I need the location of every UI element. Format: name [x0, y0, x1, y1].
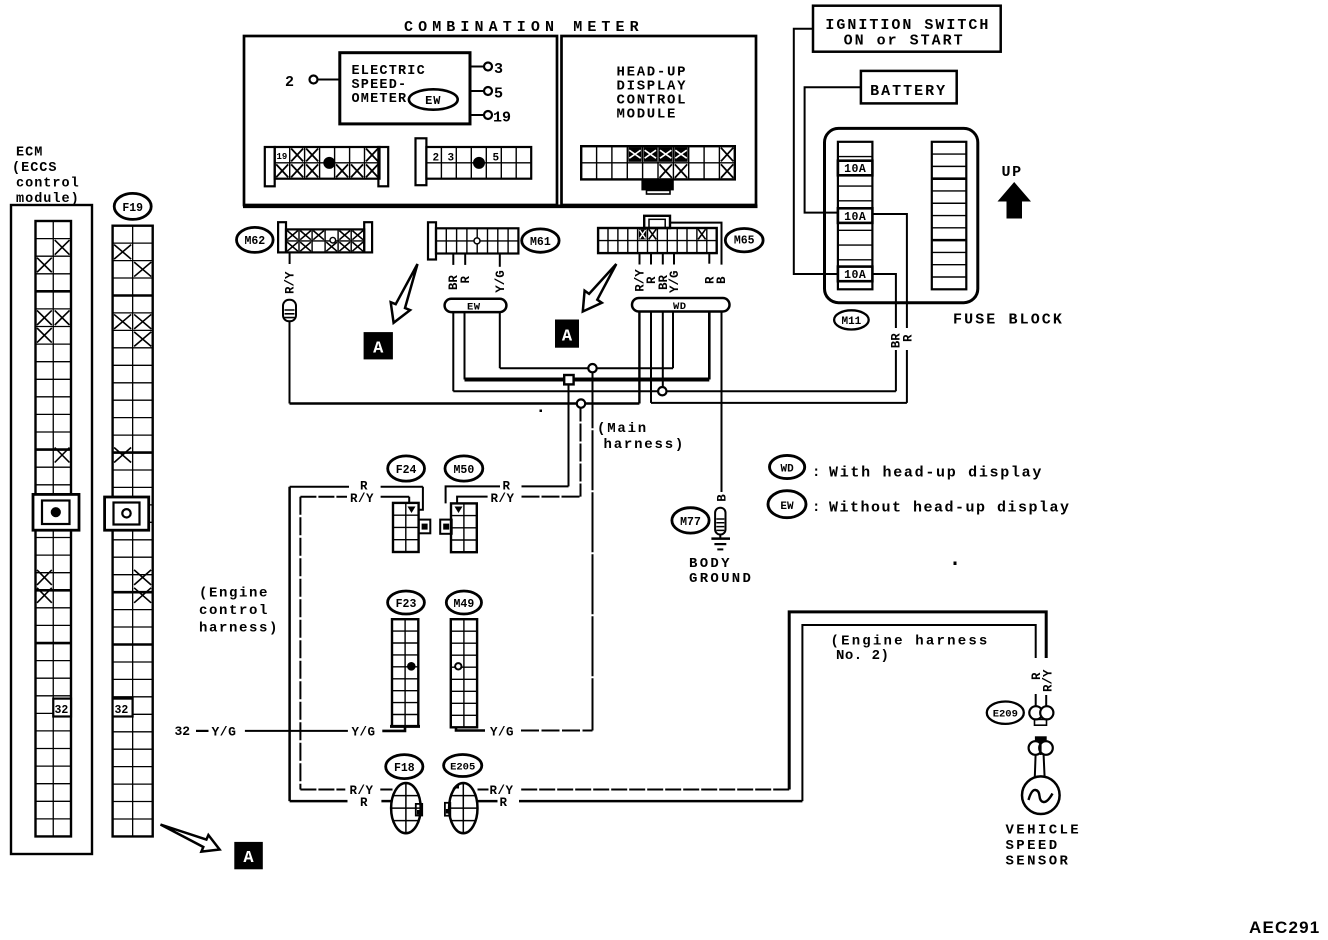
svg-text:F24: F24 [396, 464, 417, 477]
combination meter box left [244, 36, 557, 205]
connector F24 grid [393, 503, 419, 552]
svg-text::: : [812, 500, 820, 516]
junction dot Y/G [588, 364, 596, 372]
ECM pin 32 Y/G label [175, 724, 237, 739]
connector M65 oval [725, 229, 763, 252]
connector M50 oval [445, 456, 483, 481]
connector M65 strip [598, 228, 717, 253]
sensor bullet pair [1029, 736, 1053, 755]
wire M65.BR down [662, 312, 664, 392]
wire net R/Y horizontal left [290, 402, 640, 405]
head-up display control module text [617, 65, 688, 123]
svg-text:MODULE: MODULE [617, 107, 678, 123]
connector F23 oval [388, 591, 425, 614]
svg-text:COMBINATION METER: COMBINATION METER [404, 19, 644, 36]
svg-text:R/Y: R/Y [491, 492, 515, 506]
electric speedometer U1 box [340, 53, 470, 124]
wire F18 R [290, 796, 393, 810]
connector E205 egg [445, 783, 478, 833]
svg-text:EW: EW [467, 301, 481, 313]
svg-text:B: B [715, 276, 729, 284]
svg-text:control: control [16, 177, 80, 192]
svg-text:19: 19 [493, 110, 511, 127]
stray speck [540, 410, 543, 413]
wire stubs to E209 [1036, 694, 1047, 706]
svg-text:Y/G: Y/G [352, 726, 376, 740]
detail flag A3 [234, 842, 262, 869]
svg-text:SPEED-: SPEED- [352, 78, 408, 93]
wire branch Y/G down to M49 [592, 368, 594, 730]
left harness vertical R/Y [299, 497, 301, 790]
svg-text:M61: M61 [530, 236, 551, 249]
svg-text:R: R [360, 796, 368, 810]
M61 pin stubs [453, 254, 500, 267]
svg-text:Without head-up display: Without head-up display [829, 500, 1071, 517]
svg-text:32: 32 [175, 724, 191, 739]
wire M50 R/Y [457, 492, 580, 506]
wire R/Y engine harness loop [789, 612, 1046, 790]
wire E205 R/Y right [478, 784, 790, 798]
junction dot R/Y [577, 399, 585, 407]
pin 3 [470, 61, 503, 78]
fuse 10A (3) [838, 267, 873, 283]
svg-text:F18: F18 [394, 762, 415, 775]
ground symbol [711, 535, 730, 550]
M65 mating tab [644, 216, 670, 228]
svg-text:3: 3 [448, 153, 455, 165]
fuse block outline [825, 128, 978, 302]
connector M50 grid [451, 503, 477, 552]
legend WD text [812, 465, 1043, 482]
junction dot BR [658, 387, 666, 395]
connector F18 oval [386, 755, 423, 779]
M62 pin stub [289, 252, 291, 264]
combination meter box right [562, 36, 757, 205]
wire M61.BR down [452, 312, 454, 391]
svg-text:F19: F19 [122, 202, 143, 215]
connector M49 grid [451, 619, 477, 727]
R/B wire to body ground [721, 312, 723, 493]
svg-text:10A: 10A [844, 269, 866, 282]
main harness label [597, 421, 685, 453]
svg-text:B: B [716, 494, 730, 502]
WD harness bus [632, 298, 730, 313]
M50 mating tab [440, 520, 452, 534]
connector M11 oval [834, 310, 869, 329]
fuse 10A (2) [838, 208, 873, 224]
svg-text:VEHICLE: VEHICLE [1006, 823, 1082, 839]
arrow to detail A (left) [391, 264, 418, 323]
meter connector strip 1 [265, 147, 388, 186]
fuse block right column [932, 142, 967, 289]
legend EW text [812, 500, 1071, 517]
svg-text:5: 5 [494, 86, 503, 103]
ECM text [12, 146, 80, 208]
connector M62 strip [278, 222, 372, 252]
svg-text:No. 2): No. 2) [836, 648, 889, 664]
wire M65.Y/G down [672, 312, 674, 369]
battery box [861, 71, 957, 104]
connector F19 oval [114, 193, 151, 219]
svg-text:E209: E209 [993, 709, 1018, 721]
ignition switch box [813, 6, 1001, 52]
head-up connector tab [641, 179, 673, 194]
M65 R/B elbow wire [670, 223, 722, 265]
connector F19 strip [105, 226, 153, 837]
head-up display connector strip [581, 146, 735, 179]
wire branch to M50.R/Y up [580, 404, 582, 497]
svg-text:A: A [373, 339, 384, 358]
pin 5 [470, 86, 503, 103]
connector M61 strip [428, 222, 518, 259]
wire M50 R [446, 480, 569, 504]
combination meter box bottom thick edge [243, 205, 758, 209]
wire battery to fuse [805, 87, 861, 212]
svg-text:SPEED: SPEED [1006, 838, 1060, 854]
wire F18 R/Y [300, 784, 392, 798]
svg-text:F23: F23 [396, 598, 417, 611]
svg-text:19: 19 [277, 152, 288, 162]
EW variant oval on speedometer [409, 89, 458, 109]
svg-text:A: A [562, 327, 573, 346]
svg-text:harness): harness) [604, 437, 686, 453]
body ground capsule [715, 508, 725, 535]
fuse 10A (1) [838, 161, 873, 177]
connector E209 oval [987, 702, 1024, 724]
svg-text:Y/G: Y/G [490, 726, 514, 740]
pin 19 [470, 110, 511, 127]
svg-text:M77: M77 [680, 516, 701, 529]
engine control harness label [199, 586, 279, 637]
svg-text:R/Y: R/Y [284, 271, 298, 294]
wire branch to M50.R up [568, 380, 570, 487]
wire R/Y from M62 down [289, 321, 291, 403]
wire E205 R right [478, 796, 803, 810]
svg-text:M49: M49 [454, 598, 475, 611]
svg-text:M50: M50 [454, 464, 475, 477]
svg-text:M62: M62 [244, 235, 265, 248]
svg-text:FUSE BLOCK: FUSE BLOCK [953, 312, 1064, 329]
svg-text:10A: 10A [844, 211, 866, 224]
svg-text:OMETER: OMETER [352, 92, 408, 107]
M62 inline connector capsule [283, 300, 296, 322]
wire M65 fifth down [708, 312, 711, 380]
svg-text:A: A [243, 849, 254, 868]
svg-text:(Engine: (Engine [199, 586, 269, 602]
wire Y/G to F23 [245, 726, 405, 740]
svg-text:2: 2 [285, 74, 294, 91]
svg-text:5: 5 [493, 153, 500, 165]
legend WD oval [770, 455, 805, 478]
svg-text:2: 2 [433, 153, 440, 165]
wire fuse battery R down [872, 214, 907, 403]
svg-text:WD: WD [673, 301, 687, 313]
vehicle speed sensor label [1006, 823, 1082, 870]
E209 bullet pair [1029, 706, 1053, 725]
connector M49 oval [446, 591, 481, 614]
wire M65.R/Y down [638, 312, 640, 404]
svg-text:EW: EW [425, 94, 441, 108]
svg-text:EW: EW [780, 501, 794, 513]
connector F18 egg [391, 783, 422, 833]
wire net R horizontal (thick) [465, 378, 710, 382]
wire M61.Y/G down [499, 312, 501, 368]
svg-text:ON or START: ON or START [844, 33, 965, 50]
M65 pin stubs [640, 253, 710, 264]
wire net BR horizontal [453, 390, 896, 392]
detail flag A1 [364, 332, 393, 359]
svg-text:R: R [902, 334, 916, 342]
svg-text:BATTERY: BATTERY [870, 83, 947, 100]
svg-text:3: 3 [494, 61, 503, 78]
svg-text:harness): harness) [199, 621, 279, 637]
svg-text::: : [812, 465, 820, 481]
svg-text:Y/G: Y/G [668, 270, 682, 293]
wire net Y/G horizontal [500, 367, 673, 369]
svg-text:GROUND: GROUND [689, 571, 753, 587]
svg-text:ECM: ECM [16, 146, 43, 161]
svg-text:Y/G: Y/G [494, 270, 508, 293]
svg-text:control: control [199, 603, 269, 619]
wire net R horizontal right [651, 402, 907, 404]
svg-text:10A: 10A [844, 163, 866, 176]
EW harness bus [445, 299, 507, 314]
svg-text:With head-up display: With head-up display [829, 465, 1043, 482]
connector F23 grid [390, 619, 420, 726]
wire fuse ignition BR down [872, 274, 896, 391]
svg-text:E205: E205 [450, 762, 475, 774]
svg-text:ELECTRIC: ELECTRIC [352, 64, 426, 79]
fuse wire labels BR R [886, 328, 916, 350]
electric speedometer text [352, 64, 426, 107]
pin 2 [285, 74, 340, 91]
svg-text:R: R [459, 276, 473, 284]
svg-text:32: 32 [55, 704, 69, 717]
svg-text:(Main: (Main [597, 421, 648, 437]
svg-text:IGNITION SWITCH: IGNITION SWITCH [825, 17, 990, 34]
ECM connector strip [33, 221, 79, 836]
svg-text:M65: M65 [734, 235, 755, 248]
wire F24 R [290, 480, 423, 510]
F24 mating tab [419, 520, 431, 534]
svg-text:R/Y: R/Y [350, 492, 374, 506]
wire R engine harness loop [802, 625, 1035, 801]
connector M61 oval [522, 229, 559, 252]
wire ignition to fuse [794, 29, 838, 274]
svg-text:32: 32 [115, 704, 129, 717]
svg-text:UP: UP [1002, 164, 1023, 181]
vehicle speed sensor circle [1022, 776, 1060, 814]
svg-text:(ECCS: (ECCS [12, 161, 58, 176]
connector E205 oval [444, 755, 482, 777]
meter connector strip 2 [416, 138, 532, 185]
legend EW oval [768, 491, 806, 518]
svg-text:AEC291: AEC291 [1249, 918, 1320, 937]
stray mark [954, 562, 957, 566]
ECM outer box [11, 205, 92, 854]
connector M62 oval [237, 227, 274, 252]
connector M77 oval [672, 508, 709, 533]
svg-text:Y/G: Y/G [212, 725, 237, 740]
body ground label [689, 556, 753, 587]
wire M61.R down [464, 312, 466, 379]
svg-text:SENSOR: SENSOR [1006, 854, 1071, 870]
arrow to detail A (middle) [583, 264, 617, 312]
svg-text:BODY: BODY [689, 556, 732, 572]
svg-text:R/Y: R/Y [1042, 669, 1056, 692]
svg-text:M11: M11 [841, 316, 861, 328]
engine harness No2 label [831, 634, 990, 665]
wire F24 R/Y [300, 492, 409, 506]
fuse block left column [838, 142, 873, 289]
wire Y/G from M49 [456, 726, 593, 740]
arrow to detail A (bottom left) [161, 825, 220, 852]
detail flag A2 [555, 320, 579, 348]
sensor neck [1035, 755, 1045, 777]
svg-text:WD: WD [780, 464, 794, 476]
wire M65.R down [650, 312, 652, 403]
UP arrow [998, 182, 1032, 219]
connector F24 oval [388, 456, 425, 481]
svg-text:R: R [500, 796, 508, 810]
junction square R [564, 375, 573, 384]
left harness vertical R [288, 487, 291, 801]
